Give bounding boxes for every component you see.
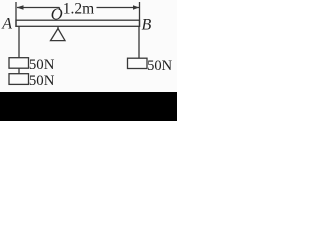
svg-text:O: O (51, 4, 63, 23)
svg-text:A: A (1, 15, 12, 32)
svg-text:50N: 50N (29, 57, 55, 73)
svg-text:50N: 50N (29, 73, 55, 89)
svg-text:B: B (142, 16, 152, 33)
svg-text:50N: 50N (147, 58, 173, 74)
svg-text:1.2m: 1.2m (63, 1, 94, 18)
